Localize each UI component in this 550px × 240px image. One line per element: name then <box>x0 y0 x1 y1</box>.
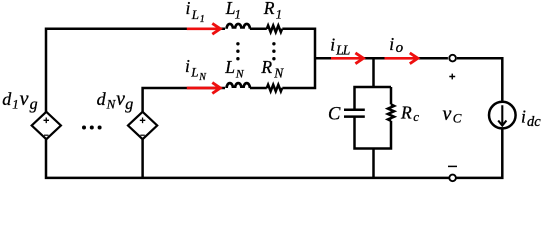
wire between LN and RN <box>250 87 267 90</box>
wire top-left corner and top branch lead <box>46 29 225 112</box>
minus sign at bottom terminal <box>448 165 457 167</box>
vertical dots under R1 <box>272 42 275 45</box>
svg-text:d: d <box>2 89 12 109</box>
vertical dots under L1 <box>236 42 239 45</box>
current arrow iLL (red) <box>331 57 361 60</box>
wire between L1 and R1 <box>250 28 267 31</box>
resistor R1 <box>267 25 282 32</box>
svg-text:1: 1 <box>276 8 282 22</box>
svg-text:N: N <box>198 72 207 83</box>
svg-text:R: R <box>400 103 412 123</box>
svg-text:L: L <box>191 7 199 22</box>
svg-text:i: i <box>521 107 526 127</box>
svg-text:C: C <box>453 111 462 126</box>
svg-text:R: R <box>263 0 275 18</box>
wire stem from output node down to parallel RC <box>372 58 375 87</box>
terminal node top (open circle) <box>449 55 456 62</box>
plus sign inside d1vg <box>44 118 50 124</box>
capacitor C plates <box>344 110 365 117</box>
wire left side below capacitor, bottom bar of box, right side up to Rc <box>355 117 392 149</box>
current arrow iL1 (red) <box>187 27 219 30</box>
svg-text:d: d <box>97 89 107 109</box>
minus sign inside dNvg <box>140 134 145 136</box>
wire from source dN up and right to bottom branch <box>143 88 225 112</box>
wire top bar of RC parallel box and left side down to capacitor <box>355 87 392 110</box>
svg-text:v: v <box>20 88 29 110</box>
wire output from junction to top terminal <box>315 57 448 60</box>
inductor L1 <box>227 24 250 29</box>
inductor LN <box>227 83 250 88</box>
svg-text:R: R <box>260 57 272 77</box>
wire from source dN bottom to bottom rail <box>141 139 144 178</box>
horizontal dots between sources <box>82 126 86 130</box>
svg-text:i: i <box>186 0 191 18</box>
wire right side of box from top bar to Rc <box>390 87 393 104</box>
svg-text:LL: LL <box>335 42 350 57</box>
svg-text:C: C <box>328 105 341 125</box>
minus sign inside d1vg <box>44 134 49 136</box>
svg-text:N: N <box>106 97 117 112</box>
resistor RN <box>267 85 282 92</box>
svg-text:L: L <box>224 57 235 77</box>
current source arrow <box>498 105 506 125</box>
svg-text:L: L <box>190 65 198 80</box>
svg-text:c: c <box>413 109 419 124</box>
plus sign at top terminal <box>449 74 455 80</box>
svg-text:g: g <box>30 96 38 113</box>
svg-text:i: i <box>389 34 394 54</box>
current source idc (circle) <box>489 102 516 129</box>
svg-text:i: i <box>185 56 190 76</box>
svg-text:N: N <box>273 66 284 81</box>
svg-text:1: 1 <box>200 14 205 25</box>
dependent source dNvg (diamond) <box>128 112 157 139</box>
svg-text:o: o <box>396 40 404 56</box>
terminal node bottom (open circle) <box>449 175 456 182</box>
plus sign inside dNvg <box>140 118 146 124</box>
svg-text:dc: dc <box>527 114 541 130</box>
wire from R1 to right junction bar, junction bar, and bottom-branch return <box>282 29 315 88</box>
svg-text:v: v <box>443 103 452 125</box>
wire stem from box bottom to bottom rail <box>372 149 375 178</box>
svg-text:i: i <box>330 34 335 54</box>
dependent source d1vg (diamond) <box>32 112 61 139</box>
svg-text:v: v <box>116 89 125 110</box>
wire from top terminal to top-right corner down to current source <box>457 58 503 100</box>
current arrow io (red) <box>385 57 416 60</box>
svg-text:1: 1 <box>12 97 19 112</box>
current arrow iLN (red) <box>187 87 219 90</box>
svg-text:N: N <box>235 69 245 81</box>
svg-text:1: 1 <box>235 8 241 22</box>
resistor Rc (vertical zigzag) <box>388 104 394 120</box>
wire from current source bottom, bottom rail, left riser below source d1 <box>46 130 502 178</box>
svg-text:g: g <box>125 96 133 113</box>
